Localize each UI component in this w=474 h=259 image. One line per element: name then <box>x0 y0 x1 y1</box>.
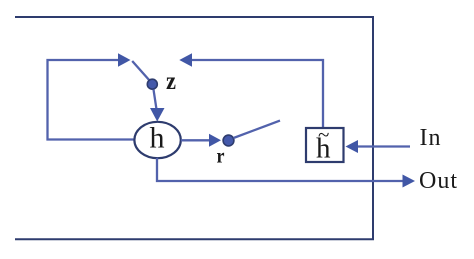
arrowhead left into h-tilde box <box>346 140 359 153</box>
candidate activation h-tilde box <box>306 128 344 162</box>
arrowhead right Out <box>403 175 416 188</box>
svg-text:~: ~ <box>318 123 329 147</box>
wire: z dot down to h <box>154 90 157 111</box>
wire: candidate loop from h-tilde box top to z switch <box>186 60 323 128</box>
arrowhead down into h circle <box>150 108 165 122</box>
wire: state feedback loop from h left around to z switch <box>48 60 137 140</box>
outer cell boundary box (open on left) <box>15 17 373 239</box>
arrowhead right at r switch <box>209 134 221 147</box>
arrowhead left at z switch second input <box>179 53 192 66</box>
node z switch pivot dot <box>147 79 157 89</box>
state unit h circle <box>134 122 180 158</box>
wire: In input line <box>353 145 410 147</box>
svg-text:In: In <box>420 125 442 151</box>
svg-text:r: r <box>217 144 225 168</box>
wire: z switch lever <box>132 61 150 81</box>
svg-text:z: z <box>166 68 176 95</box>
node r switch pivot dot <box>223 135 234 146</box>
svg-text:Out: Out <box>419 168 458 194</box>
wire: h right to r switch <box>181 139 212 141</box>
arrowhead right at z switch input <box>118 53 131 66</box>
wire: r switch lever (open) <box>234 121 281 138</box>
svg-text:h: h <box>150 122 165 155</box>
wire: Out line from h bottom <box>157 158 406 181</box>
